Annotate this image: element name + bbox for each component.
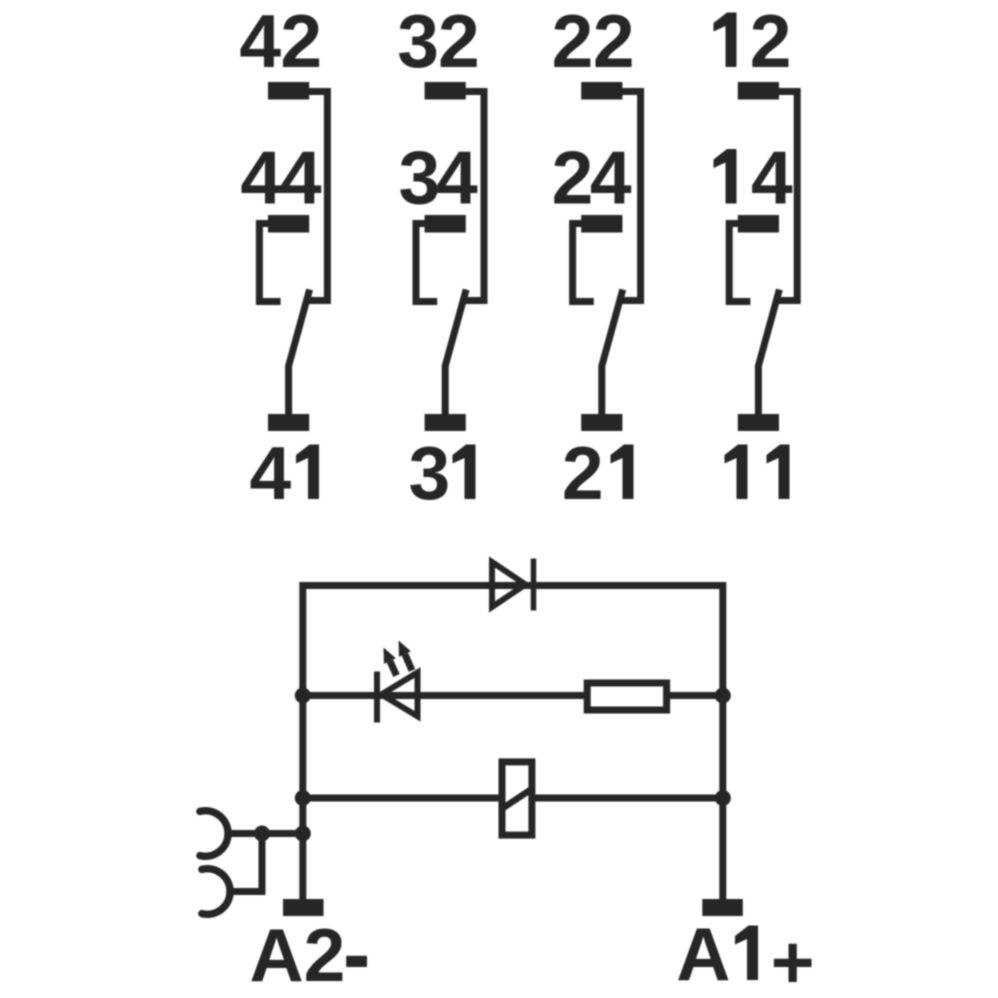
svg-text:4: 4 xyxy=(590,136,632,220)
svg-text:4: 4 xyxy=(436,136,478,220)
svg-text:3: 3 xyxy=(398,136,440,220)
svg-text:4: 4 xyxy=(240,136,282,220)
svg-text:2: 2 xyxy=(552,0,594,83)
svg-text:3: 3 xyxy=(397,0,439,83)
svg-text:A2: A2 xyxy=(250,913,346,997)
svg-text:4: 4 xyxy=(250,431,292,515)
svg-text:2: 2 xyxy=(280,0,322,83)
svg-text:4: 4 xyxy=(751,136,793,220)
svg-text:+: + xyxy=(771,920,815,998)
svg-text:4: 4 xyxy=(239,0,281,83)
svg-text:2: 2 xyxy=(750,0,792,83)
svg-text:2: 2 xyxy=(593,0,635,83)
svg-text:4: 4 xyxy=(280,136,322,220)
svg-text:3: 3 xyxy=(409,431,451,515)
svg-text:A: A xyxy=(676,912,730,996)
svg-text:2: 2 xyxy=(552,136,594,220)
svg-text:2: 2 xyxy=(438,0,480,83)
svg-text:2: 2 xyxy=(562,431,604,515)
